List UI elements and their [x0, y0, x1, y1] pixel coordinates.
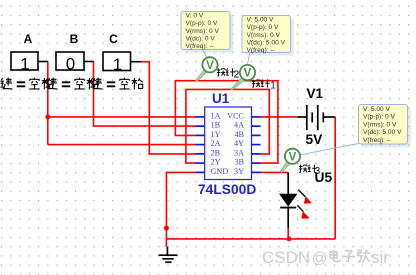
- svg-text:V(rms): 0 V: V(rms): 0 V: [247, 32, 281, 39]
- svg-text:1B: 1B: [211, 121, 221, 130]
- svg-text:V1: V1: [307, 86, 324, 101]
- svg-text:C: C: [109, 32, 118, 46]
- svg-text:2B: 2B: [211, 148, 221, 157]
- svg-text:V(dc): 0 V: V(dc): 0 V: [186, 35, 216, 42]
- svg-text:A: A: [24, 32, 33, 46]
- svg-text:2: 2: [234, 69, 240, 80]
- svg-text:GND: GND: [211, 167, 229, 176]
- svg-text:@: @: [312, 250, 328, 267]
- svg-text:74LS00D: 74LS00D: [198, 182, 256, 197]
- svg-text:V(freq): --: V(freq): --: [247, 47, 275, 54]
- svg-text:B: B: [70, 32, 79, 46]
- svg-text:V(freq): --: V(freq): --: [186, 43, 214, 50]
- svg-text:V: 0 V: V: 0 V: [186, 13, 204, 20]
- svg-text:2Y: 2Y: [211, 158, 221, 167]
- svg-text:V(dc): 5.00 V: V(dc): 5.00 V: [363, 129, 402, 136]
- svg-text:1A: 1A: [211, 112, 221, 121]
- svg-text:V(p-p): 0 V: V(p-p): 0 V: [363, 114, 395, 121]
- svg-text:U1: U1: [212, 91, 230, 106]
- svg-text:1: 1: [113, 55, 122, 74]
- svg-text:2A: 2A: [211, 139, 221, 148]
- svg-text:V(dc): 5.00 V: V(dc): 5.00 V: [247, 39, 286, 46]
- svg-text:V(rms): 0 V: V(rms): 0 V: [186, 28, 220, 35]
- svg-text:V(p-p): 0 V: V(p-p): 0 V: [247, 24, 279, 31]
- svg-text:4B: 4B: [234, 130, 244, 139]
- svg-text:4A: 4A: [234, 121, 244, 130]
- svg-text:V: V: [289, 152, 297, 164]
- svg-text:VCC: VCC: [227, 112, 244, 121]
- svg-text:sir: sir: [371, 248, 389, 267]
- svg-text:1: 1: [20, 55, 29, 74]
- svg-text:V: 5.00 V: V: 5.00 V: [363, 106, 390, 113]
- svg-text:3B: 3B: [234, 158, 244, 167]
- svg-text:1: 1: [270, 81, 276, 92]
- svg-text:CSDN: CSDN: [262, 248, 310, 267]
- svg-text:V: 5.00 V: V: 5.00 V: [247, 17, 274, 24]
- svg-text:V(p-p): 0 V: V(p-p): 0 V: [186, 20, 218, 27]
- svg-text:0: 0: [66, 55, 75, 74]
- svg-text:V: V: [244, 68, 252, 80]
- svg-text:3Y: 3Y: [234, 167, 244, 176]
- svg-text:1Y: 1Y: [211, 130, 221, 139]
- svg-text:4Y: 4Y: [234, 139, 244, 148]
- svg-text:V(freq): --: V(freq): --: [363, 137, 391, 144]
- svg-text:3A: 3A: [234, 148, 244, 157]
- svg-text:3: 3: [315, 166, 321, 177]
- svg-text:V: V: [206, 60, 214, 72]
- svg-text:5V: 5V: [306, 132, 324, 147]
- svg-text:V(rms): 0 V: V(rms): 0 V: [363, 121, 397, 128]
